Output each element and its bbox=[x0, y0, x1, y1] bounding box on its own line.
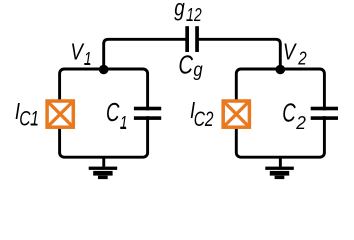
ground left bbox=[89, 157, 118, 179]
label C2 bbox=[282, 98, 306, 134]
svg-text:g: g bbox=[193, 59, 202, 81]
label IC1 bbox=[15, 98, 39, 131]
svg-text:12: 12 bbox=[186, 4, 202, 25]
wire right loop bbox=[236, 69, 324, 157]
svg-text:C: C bbox=[282, 98, 296, 128]
svg-text:V: V bbox=[283, 39, 297, 65]
svg-text:g: g bbox=[174, 0, 185, 20]
wire left loop bbox=[60, 69, 148, 157]
node V2 dot bbox=[276, 65, 286, 75]
ground right bbox=[265, 157, 294, 179]
svg-text:V: V bbox=[70, 39, 84, 65]
Josephson junction IC2 bbox=[223, 101, 249, 127]
wire coupling right segment bbox=[197, 39, 280, 69]
svg-text:1: 1 bbox=[84, 48, 92, 69]
label V2 bbox=[283, 39, 307, 69]
svg-text:C1: C1 bbox=[19, 107, 39, 131]
svg-text:C: C bbox=[106, 97, 120, 127]
label g12 bbox=[174, 0, 202, 25]
svg-text:2: 2 bbox=[297, 47, 307, 68]
wire coupling left segment bbox=[104, 39, 187, 69]
capacitor C2 bbox=[311, 107, 338, 120]
svg-text:2: 2 bbox=[295, 112, 306, 133]
label Cg bbox=[178, 50, 202, 81]
label V1 bbox=[70, 39, 91, 70]
capacitor Cg bbox=[185, 26, 199, 52]
svg-text:C2: C2 bbox=[194, 107, 214, 131]
svg-text:1: 1 bbox=[120, 112, 128, 133]
label C1 bbox=[106, 97, 128, 133]
capacitor C1 bbox=[134, 107, 161, 120]
node V1 dot bbox=[99, 65, 109, 75]
label IC2 bbox=[190, 97, 213, 131]
Josephson junction IC1 bbox=[47, 101, 73, 127]
svg-text:C: C bbox=[178, 50, 193, 80]
